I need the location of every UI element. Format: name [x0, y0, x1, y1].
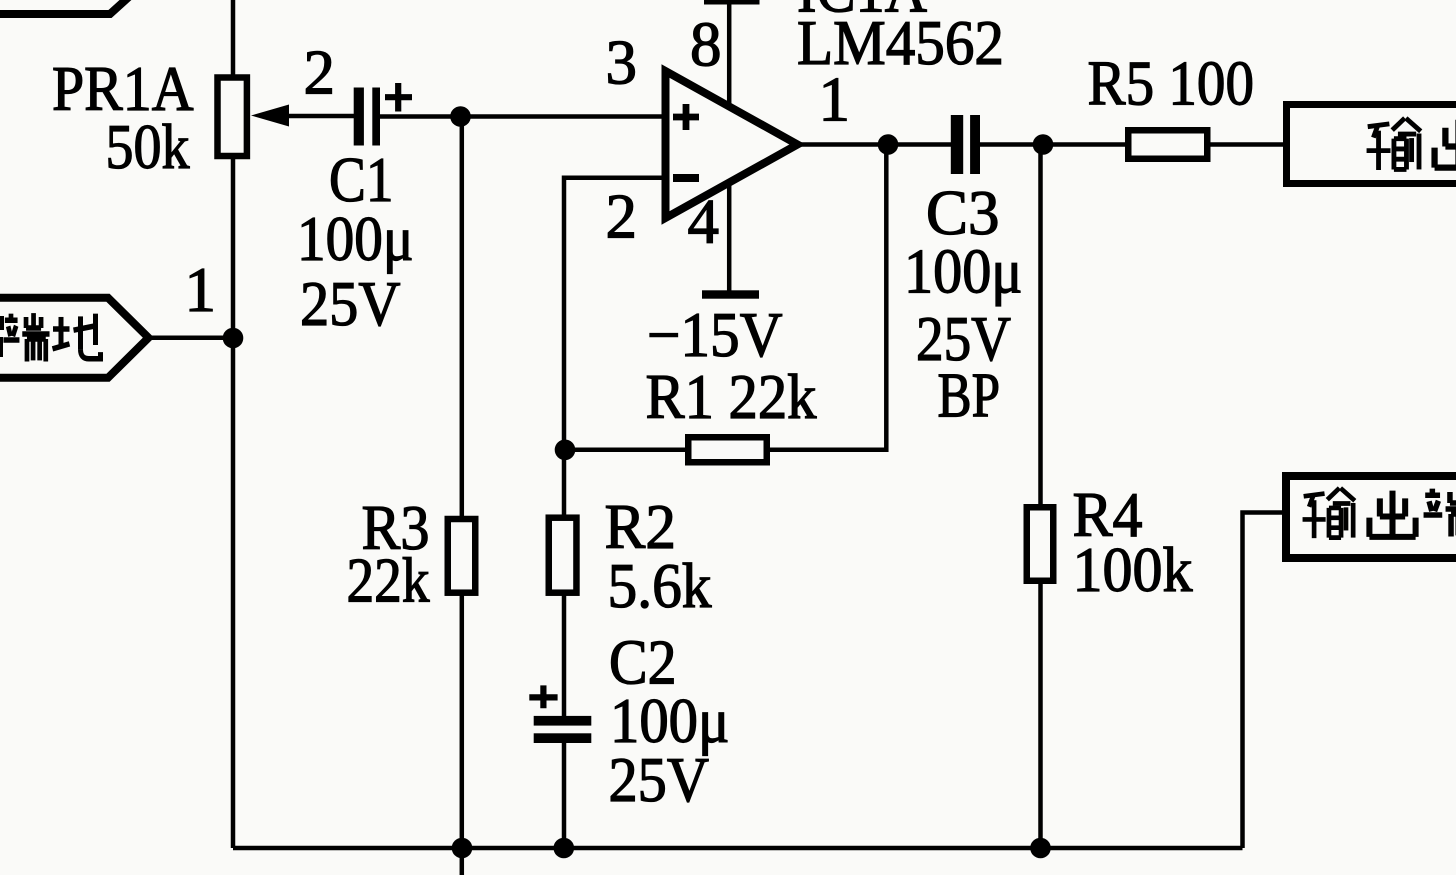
op-amp minus mark [673, 174, 699, 182]
svg-text:25V: 25V [609, 745, 710, 815]
node junction R3/rail [452, 838, 473, 859]
wire R4 top [1038, 145, 1043, 507]
capacitor C1 plates [354, 88, 364, 146]
svg-text:3: 3 [606, 28, 638, 98]
resistor R5 body [1128, 130, 1207, 159]
ground rail wire [233, 846, 1243, 851]
resistor R1 body [688, 437, 767, 462]
svg-text:100μ: 100μ [297, 204, 414, 274]
wire output box 2 to ground rail [1243, 513, 1283, 849]
svg-text:100k: 100k [1073, 535, 1193, 605]
wire R3 bottom (continues off canvas) [460, 593, 465, 875]
svg-text:LM4562: LM4562 [797, 8, 1004, 78]
svg-text:2: 2 [304, 38, 336, 108]
-15V supply bar [702, 290, 759, 298]
wire R4 bottom [1038, 581, 1043, 848]
+15V supply bar (cut) [704, 0, 760, 5]
wire C2 to ground rail [562, 743, 567, 848]
node junction R1/R2 [555, 440, 576, 461]
wire flag to pot line [148, 335, 233, 340]
char 端 (cut) [1424, 488, 1456, 536]
capacitor C2 plates [534, 716, 592, 726]
resistor R2 body [549, 518, 577, 593]
char 出 [1369, 491, 1415, 537]
svg-text:100μ: 100μ [904, 237, 1023, 307]
char 输 [1303, 488, 1355, 538]
C1 polarity plus [385, 83, 412, 112]
wire op-amp - input [564, 178, 662, 450]
wire pin 8 [727, 4, 732, 104]
input connector flag (cut at top-left corner) [0, 0, 131, 14]
output box 1 [1287, 105, 1456, 184]
resistor R3 body [448, 519, 476, 593]
wire R1 to output node [767, 145, 886, 450]
wire C1 to op-amp + input [380, 114, 662, 119]
svg-text:1: 1 [185, 255, 217, 325]
ground flag 端地 [0, 298, 149, 378]
node junction flag/pot [223, 328, 244, 349]
svg-text:5.6k: 5.6k [608, 551, 712, 621]
op-amp U1 triangle [666, 71, 798, 218]
wire C3 to R5 [980, 142, 1128, 147]
svg-text:BP: BP [938, 361, 1001, 431]
svg-text:8: 8 [690, 10, 722, 80]
svg-text:R1 22k: R1 22k [646, 362, 817, 432]
node junction output [878, 134, 899, 155]
svg-text:2: 2 [606, 182, 638, 252]
wire pot bottom to ground rail [231, 155, 236, 848]
node junction C2/rail [554, 838, 575, 859]
wire R5 to output box [1207, 142, 1284, 147]
wire pin 4 [727, 184, 732, 291]
node junction C3/R4 [1033, 134, 1054, 155]
svg-text:22k: 22k [347, 546, 430, 616]
svg-text:50k: 50k [106, 112, 190, 182]
cut character fragment [0, 316, 4, 330]
node junction R4/rail [1030, 838, 1051, 859]
wire wiper to C1 [286, 114, 354, 119]
svg-text:−15V: −15V [647, 300, 783, 370]
C2 polarity plus [529, 685, 557, 708]
wire node to R2 [562, 450, 567, 518]
wire op-amp output [797, 142, 951, 147]
svg-text:R5 100: R5 100 [1088, 49, 1255, 119]
resistor R4 body [1027, 507, 1054, 581]
svg-text:4: 4 [688, 187, 720, 257]
output box 2 [1286, 476, 1456, 558]
node junction C1/R3 [450, 106, 471, 127]
char 出 (cut) [1435, 120, 1456, 168]
potentiometer wiper arrow [251, 105, 289, 127]
op-amp plus mark [673, 104, 699, 130]
char 端 [3, 313, 49, 361]
wire node to R3 [460, 117, 465, 519]
potentiometer PR1A body [218, 78, 247, 157]
wire node to R1 [565, 448, 688, 453]
capacitor C3 plates [951, 115, 963, 174]
svg-text:25V: 25V [300, 269, 401, 339]
wire pot top [231, 0, 236, 78]
char 地 [53, 314, 101, 359]
wire R2 to C2 [562, 593, 567, 716]
char 输 [1367, 118, 1421, 170]
